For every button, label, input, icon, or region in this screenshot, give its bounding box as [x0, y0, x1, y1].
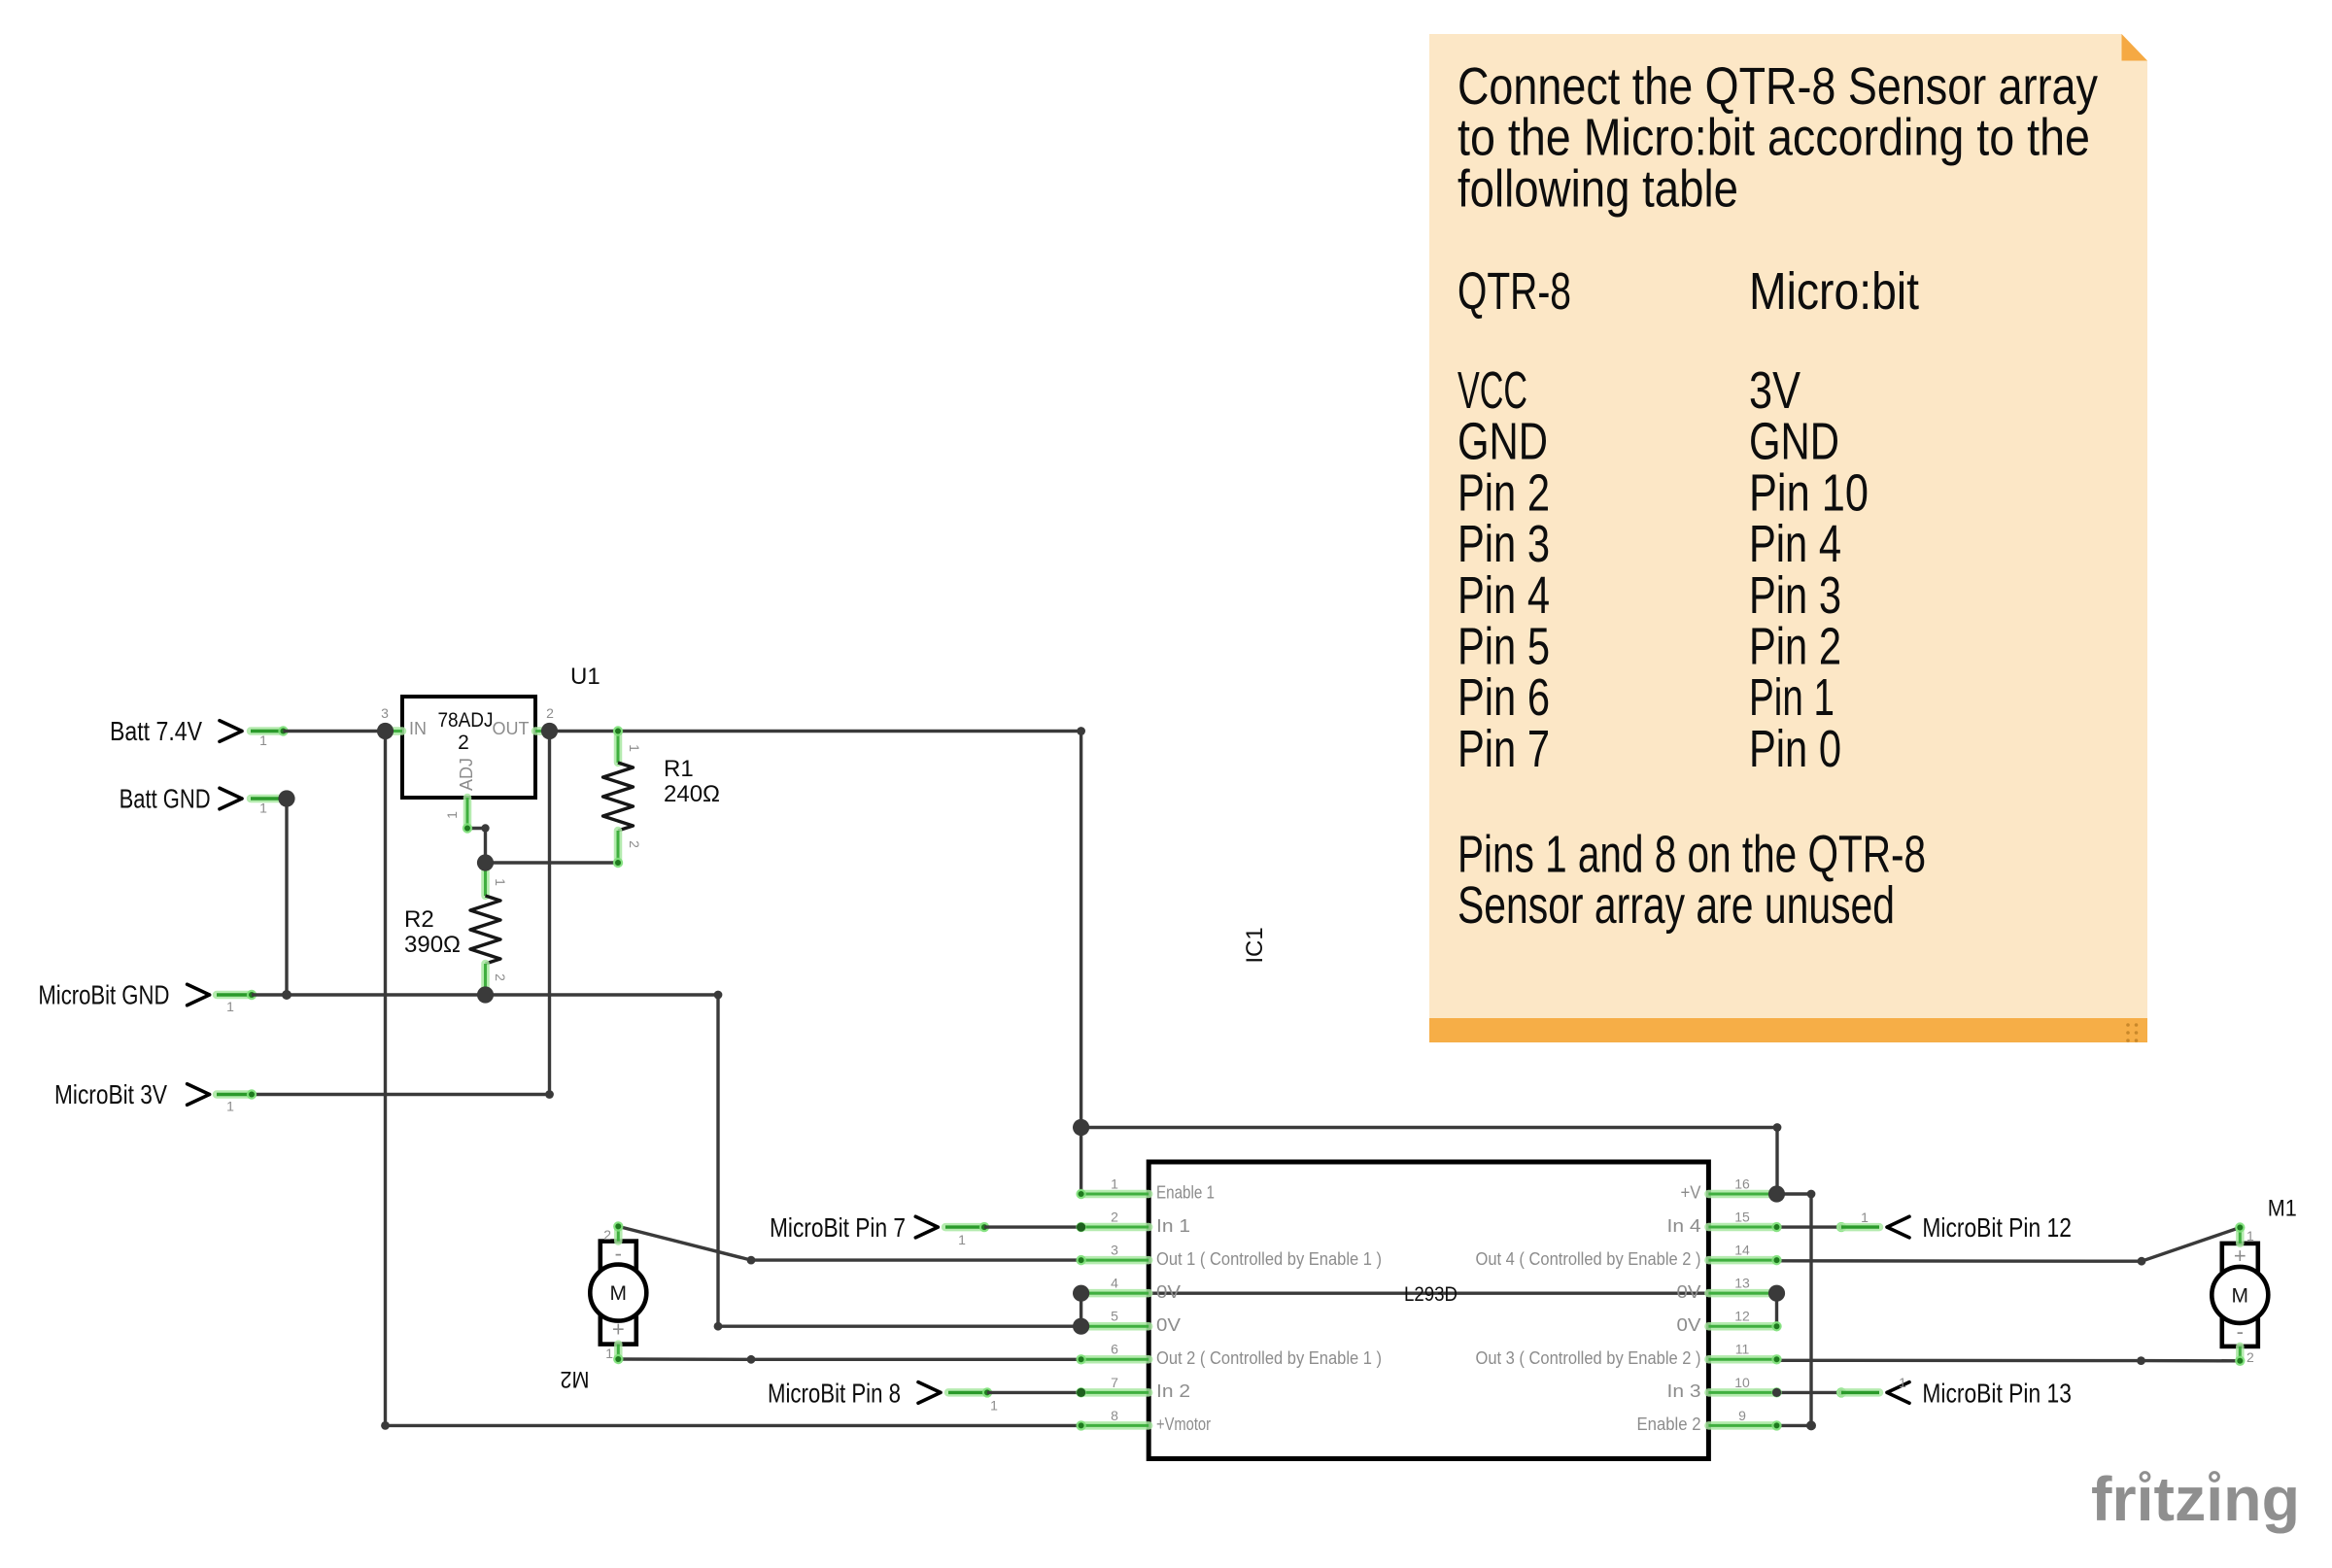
svg-text:Batt 7.4V: Batt 7.4V: [110, 716, 203, 746]
svg-text:Sensor array are unused: Sensor array are unused: [1457, 876, 1895, 935]
M2 pin number 2: [603, 1227, 611, 1243]
net label Batt GND: [120, 784, 268, 816]
svg-text:1: 1: [444, 811, 460, 819]
note text: table header QTR-8 / Micro:bit: [1457, 262, 1919, 321]
U1 pin stub OUT (2): [535, 705, 554, 732]
svg-text:1: 1: [1111, 1176, 1118, 1191]
wire: Batt 7.4V rail down to +Vmotor (pin 8): [386, 732, 1081, 1426]
node: wire end at In 3: [1772, 1388, 1781, 1397]
M2 pin number 1: [605, 1346, 613, 1361]
resistor R1 240ohm: [603, 726, 634, 868]
svg-text:0V: 0V: [1156, 1282, 1181, 1302]
R1 pin number 2: [627, 840, 642, 848]
svg-text:10: 10: [1734, 1375, 1750, 1390]
node: junction 0V pin 5: [1073, 1318, 1089, 1335]
svg-text:+Vmotor: +Vmotor: [1156, 1415, 1211, 1434]
wire: U1 OUT rail down to MicroBit 3V: [217, 732, 550, 1100]
wire: junction above IC across to +V (pin 16): [1081, 1128, 1777, 1195]
node: bend right of Enable 2: [1806, 1420, 1816, 1430]
svg-text:IC1: IC1: [1242, 927, 1268, 963]
svg-text:0V: 0V: [1677, 1282, 1701, 1302]
IC pin 2 stub and label In 1: [1081, 1209, 1190, 1235]
svg-text:1: 1: [990, 1398, 998, 1414]
svg-text:3: 3: [1111, 1243, 1118, 1258]
svg-text:Pins 1 and 8 on the QTR-8: Pins 1 and 8 on the QTR-8: [1457, 826, 1926, 884]
svg-text:MicroBit Pin 8: MicroBit Pin 8: [768, 1378, 901, 1408]
node: bend GND vertical to 0V row: [714, 1322, 723, 1331]
U1 pin label ADJ: [457, 758, 476, 791]
node: bend 3V wire over IC: [1077, 727, 1085, 735]
svg-text:M: M: [610, 1282, 628, 1305]
U1 pin label IN: [409, 719, 427, 738]
IC pin 16 stub and label +V: [1681, 1176, 1777, 1202]
svg-text:12: 12: [1734, 1309, 1750, 1324]
svg-text:+: +: [612, 1317, 625, 1342]
wire: motor M2 minus terminal to Out 1 (pin 3): [618, 1226, 1080, 1260]
svg-text:1: 1: [627, 744, 642, 752]
wire: MicroBit Pin 7 to In 1 (pin 2): [945, 1222, 1081, 1232]
IC pin 12 stub and label 0V: [1677, 1309, 1777, 1335]
svg-text:Pin 5: Pin 5: [1457, 618, 1550, 676]
node: bend 3V rail corner: [545, 1090, 554, 1099]
IC pin 5 stub and label 0V: [1081, 1309, 1181, 1335]
M1 pin number 2: [2246, 1349, 2254, 1365]
node: bend above +V: [1773, 1123, 1782, 1132]
net label MicroBit Pin 7: [770, 1212, 966, 1247]
svg-text:Out 2 ( Controlled by Enable 1: Out 2 ( Controlled by Enable 1 ): [1156, 1348, 1382, 1368]
svg-text:to the Micro:bit according to: to the Micro:bit according to the: [1457, 109, 2090, 167]
motor M2: [590, 1221, 646, 1364]
svg-text:Micro:bit: Micro:bit: [1749, 262, 1919, 321]
wire: junction above IC to Enable 1 (pin 1): [1080, 1128, 1082, 1195]
net label MicroBit Pin 13: [1887, 1375, 2072, 1408]
node: bend Out4 / M1 diagonal: [2138, 1257, 2146, 1266]
fritzing logo: [2091, 1464, 2300, 1534]
IC pin 7 stub and label In 2: [1081, 1375, 1190, 1401]
node: wire end at In 2: [1077, 1388, 1085, 1397]
node: wire end at In 1: [1077, 1223, 1085, 1232]
svg-text:IN: IN: [409, 719, 427, 738]
svg-text:16: 16: [1734, 1176, 1750, 1191]
svg-text:+V: +V: [1681, 1183, 1701, 1203]
node: bend Out3 / M1 wire: [2137, 1356, 2145, 1365]
wire: Batt 7.4V to U1 IN: [251, 726, 386, 735]
svg-text:2: 2: [1111, 1209, 1118, 1224]
U1 pin label OUT: [493, 719, 530, 738]
svg-text:-: -: [2237, 1319, 2244, 1344]
svg-text:In 1: In 1: [1156, 1216, 1190, 1236]
svg-text:M2: M2: [561, 1366, 590, 1392]
note: sticky note background: [1429, 34, 2147, 1042]
node: junction Batt7.4V / U1 IN: [377, 723, 394, 739]
svg-text:GND: GND: [1457, 413, 1548, 471]
R2 labels: [404, 906, 461, 958]
svg-text:MicroBit Pin 7: MicroBit Pin 7: [770, 1212, 906, 1243]
node: junction R2 bottom on GND rail: [477, 986, 494, 1003]
svg-text:3V: 3V: [1749, 361, 1800, 420]
svg-text:4: 4: [1111, 1276, 1118, 1291]
wire: Out 4 (pin 14) to motor M1 plus terminal: [1777, 1228, 2241, 1262]
svg-text:R2: R2: [404, 906, 434, 933]
svg-text:11: 11: [1735, 1342, 1750, 1357]
note: folded corner: [2122, 34, 2148, 61]
svg-text:M1: M1: [2268, 1196, 2297, 1222]
svg-text:2: 2: [458, 732, 469, 754]
M2 reference label (rotated 180): [561, 1366, 590, 1392]
svg-text:0V: 0V: [1677, 1315, 1701, 1335]
node: bend +Vmotor corner: [381, 1421, 390, 1430]
svg-text:1: 1: [2246, 1228, 2254, 1244]
wire: U1 OUT to bend above IC: [550, 732, 1081, 1128]
node: bend Out1 / M2 diagonal: [747, 1256, 756, 1265]
U1 pin stub ADJ (1): [444, 798, 472, 834]
node: junction U1 OUT: [541, 723, 558, 739]
svg-text:R1: R1: [664, 756, 694, 782]
svg-text:1: 1: [259, 801, 267, 816]
node: bend ADJ corner: [481, 824, 489, 832]
net label MicroBit Pin 12: [1861, 1210, 2072, 1243]
svg-text:1: 1: [958, 1232, 966, 1247]
svg-text:1: 1: [1899, 1375, 1906, 1390]
motor M1: [2212, 1222, 2268, 1366]
svg-text:2: 2: [2246, 1349, 2254, 1365]
svg-text:1: 1: [605, 1346, 613, 1361]
R2 pin number 2: [493, 973, 508, 981]
node: junction +V pin 16: [1768, 1185, 1785, 1202]
net label MicroBit GND: [38, 980, 234, 1015]
IC pin 14 stub and label Out 4 ( Controlled by Enable 2 ): [1476, 1243, 1777, 1269]
R1 labels: [664, 756, 720, 807]
svg-text:Pin 6: Pin 6: [1457, 668, 1550, 727]
svg-text:Pin 3: Pin 3: [1457, 515, 1550, 573]
IC pin 1 stub and label Enable 1: [1081, 1176, 1215, 1202]
svg-text:1: 1: [226, 1099, 234, 1114]
IC pin 10 stub and label In 3: [1667, 1375, 1777, 1401]
svg-text:U1: U1: [570, 664, 600, 690]
svg-text:1: 1: [493, 878, 508, 886]
svg-text:8: 8: [1111, 1408, 1118, 1423]
svg-text:13: 13: [1734, 1276, 1750, 1291]
wire: 0V bus pin 4 to pin 13 across IC: [1081, 1293, 1777, 1326]
svg-text:Pin 4: Pin 4: [1457, 566, 1550, 625]
wire: motor M2 plus terminal to Out 2 (pin 6): [618, 1357, 1080, 1361]
svg-text:GND: GND: [1749, 413, 1839, 471]
note text: footer about pins 1 and 8: [1457, 826, 1926, 936]
svg-text:Connect the QTR-8 Sensor array: Connect the QTR-8 Sensor array: [1457, 57, 2098, 116]
M1 reference label: [2268, 1196, 2297, 1222]
note text: intro paragraph: [1457, 57, 2098, 218]
svg-text:ADJ: ADJ: [457, 758, 476, 791]
node: junction ADJ/R1/R2 divider: [477, 854, 494, 870]
net label MicroBit 3V: [54, 1079, 234, 1114]
net label MicroBit Pin 8: [768, 1378, 998, 1413]
node: junction 3V rail above IC: [1073, 1119, 1089, 1136]
IC pin 13 stub and label 0V: [1677, 1276, 1777, 1302]
IC L293D body: [1149, 1162, 1708, 1459]
IC pin 3 stub and label Out 1 ( Controlled by Enable 1 ): [1081, 1243, 1382, 1269]
svg-text:MicroBit Pin 13: MicroBit Pin 13: [1922, 1378, 2071, 1408]
svg-text:Out 4 ( Controlled by Enable 2: Out 4 ( Controlled by Enable 2 ): [1476, 1249, 1701, 1269]
resistor R2 390ohm: [470, 863, 500, 995]
svg-text:fritzing: fritzing: [2091, 1464, 2300, 1534]
svg-text:14: 14: [1734, 1243, 1750, 1258]
svg-text:Pin 10: Pin 10: [1749, 463, 1869, 522]
svg-text:7: 7: [1111, 1375, 1118, 1390]
voltage regulator U1 78ADJ body: [402, 697, 535, 798]
svg-text:0V: 0V: [1156, 1315, 1181, 1335]
svg-text:OUT: OUT: [493, 719, 530, 738]
R1 pin number 1: [627, 744, 642, 752]
IC pin 6 stub and label Out 2 ( Controlled by Enable 1 ): [1081, 1342, 1382, 1368]
svg-text:2: 2: [627, 840, 642, 848]
svg-text:Pin 2: Pin 2: [1749, 618, 1841, 676]
svg-text:L293D: L293D: [1404, 1283, 1457, 1306]
U1 reference label: [570, 664, 600, 690]
svg-text:Enable 2: Enable 2: [1637, 1415, 1701, 1434]
svg-text:Out 1 ( Controlled by Enable 1: Out 1 ( Controlled by Enable 1 ): [1156, 1249, 1382, 1269]
IC pin 11 stub and label Out 3 ( Controlled by Enable 2 ): [1476, 1342, 1777, 1368]
svg-text:2: 2: [493, 973, 508, 981]
node: junction Batt GND: [278, 790, 294, 806]
svg-text:In 3: In 3: [1667, 1381, 1701, 1401]
wire: ADJ pin to divider junction: [467, 829, 486, 864]
svg-text:Pin 1: Pin 1: [1749, 668, 1835, 727]
wire: MicroBit GND rail to 0V pins 4 and 5: [217, 990, 1081, 1326]
svg-text:following table: following table: [1457, 159, 1738, 218]
net label Batt 7.4V: [110, 716, 267, 748]
wire: Out 3 (pin 11) to motor M1 minus terminal: [1777, 1359, 2241, 1363]
svg-text:1: 1: [259, 733, 267, 748]
svg-text:2: 2: [546, 705, 554, 721]
svg-text:2: 2: [603, 1227, 611, 1243]
M1 pin number 1: [2246, 1228, 2254, 1244]
pin endpoint markers: [1076, 1189, 1781, 1431]
svg-text:3: 3: [381, 705, 389, 721]
svg-text:MicroBit Pin 12: MicroBit Pin 12: [1922, 1212, 2071, 1243]
IC value label L293D: [1404, 1283, 1457, 1306]
svg-text:390Ω: 390Ω: [404, 932, 461, 958]
IC pin 4 stub and label 0V: [1081, 1276, 1181, 1302]
svg-text:78ADJ: 78ADJ: [438, 709, 494, 732]
note text: mapping table rows: [1457, 361, 1869, 778]
svg-text:QTR-8: QTR-8: [1457, 262, 1571, 321]
IC pin 15 stub and label In 4: [1667, 1209, 1777, 1235]
node: bend Out2 / M2 wire: [747, 1355, 756, 1364]
svg-text:9: 9: [1738, 1408, 1746, 1423]
svg-text:M: M: [2232, 1284, 2249, 1307]
node: bend Batt GND joins GND rail: [282, 990, 291, 1000]
svg-text:MicroBit 3V: MicroBit 3V: [54, 1079, 168, 1109]
wire: MicroBit Pin 8 to In 2 (pin 7): [948, 1387, 1081, 1397]
node: bend right of +V: [1807, 1190, 1816, 1199]
svg-text:Pin 0: Pin 0: [1749, 720, 1841, 778]
svg-text:In 2: In 2: [1156, 1381, 1190, 1401]
svg-text:Enable 1: Enable 1: [1156, 1183, 1215, 1203]
svg-text:Pin 2: Pin 2: [1457, 463, 1550, 522]
note: resize grip dots: [2126, 1023, 2138, 1042]
svg-text:Pin 7: Pin 7: [1457, 720, 1550, 778]
wire: In 4 (pin 15) to MicroBit Pin 12: [1777, 1222, 1880, 1232]
U1 pin stub IN (3): [381, 705, 402, 732]
svg-text:6: 6: [1111, 1342, 1118, 1357]
wire: Batt GND down to ground rail: [251, 799, 287, 995]
svg-text:Pin 3: Pin 3: [1749, 566, 1841, 625]
wire: In 3 (pin 10) to MicroBit Pin 13: [1777, 1387, 1880, 1397]
svg-text:MicroBit GND: MicroBit GND: [38, 980, 169, 1010]
svg-text:Pin 4: Pin 4: [1749, 515, 1841, 573]
svg-text:Out 3 ( Controlled by Enable 2: Out 3 ( Controlled by Enable 2 ): [1476, 1348, 1701, 1368]
svg-text:240Ω: 240Ω: [664, 781, 720, 807]
svg-text:1: 1: [1861, 1210, 1869, 1225]
svg-text:Batt GND: Batt GND: [120, 784, 211, 814]
node: bend GND rail corner: [714, 991, 723, 1000]
IC pin 8 stub and label +Vmotor: [1081, 1408, 1211, 1434]
svg-text:VCC: VCC: [1457, 361, 1527, 420]
IC pin 9 stub and label Enable 2: [1637, 1408, 1777, 1434]
R2 pin number 1: [493, 878, 508, 886]
wire: R1 bottom to ADJ junction: [486, 861, 619, 864]
svg-text:15: 15: [1734, 1209, 1750, 1224]
wire: +V (pin 16) to Enable 2 (pin 9): [1777, 1194, 1812, 1425]
svg-text:In 4: In 4: [1667, 1216, 1701, 1236]
node: junction 0V pin 13: [1768, 1285, 1785, 1302]
node: junction 0V pin 4: [1073, 1285, 1089, 1302]
svg-text:5: 5: [1111, 1309, 1118, 1324]
svg-text:1: 1: [226, 999, 234, 1014]
IC1 reference label (rotated): [1242, 927, 1268, 963]
